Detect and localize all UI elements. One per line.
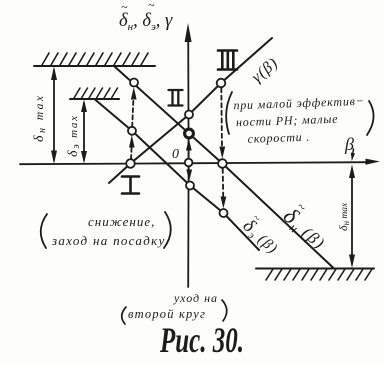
svg-text:заход на посадку: заход на посадку [51,233,166,248]
roman numeral II [169,90,183,106]
svg-text:γ(β): γ(β) [249,54,282,86]
dashed arrow region III: from β axis down to δэ line [222,169,225,197]
label δэ(β) on line δэ [238,211,287,259]
dashed arrow region I: from β axis up to δэ line [130,147,133,159]
svg-text:ности РН; малые: ности РН; малые [236,112,339,130]
node: γ line crossing vertical axis [185,111,193,119]
svg-text:при малой эффектив−: при малой эффектив− [233,94,365,113]
node: δэ line crossing vertical axis [186,182,194,190]
dashed arrow region I: from δэ line up to δн line [132,99,133,127]
label δэ max (left dimension) [66,114,82,157]
svg-text:0: 0 [172,147,179,162]
dimension arrow δн max (right), from β axis down to lower limit line [351,169,353,264]
annotation parenthesis ) [222,300,227,321]
annotation parenthesis ( [226,92,232,134]
label δн(β) on line δн [277,196,338,256]
annotation parenthesis ( [41,214,47,248]
caption Рис. 30. [159,319,244,360]
node: δн line crossing vertical axis (bold) [185,129,194,138]
svg-text:δэ max: δэ max [66,114,82,157]
dimension arrow δн max (left), from δн max line down to β axis [53,70,55,160]
wire: line δэ(β) (aileron deflection vs sideslip) [95,100,259,251]
node: γ line crossing β axis (region I) [126,159,135,168]
annotation: снижение, заход на посадку [51,214,166,248]
horizontal axis arrowhead [366,159,381,165]
svg-text:снижение,: снижение, [88,214,155,229]
svg-text:Рис. 30.: Рис. 30. [159,319,244,360]
axis label δн, δэ, γ [119,0,173,33]
node: origin [185,159,193,167]
label δн max (right dimension) [336,202,351,231]
svg-text:скорости .: скорости . [247,130,310,146]
roman numeral III [218,51,237,70]
horizontal axis (β axis) [20,162,368,164]
annotation: при малой эффективности РН; малые скорости [233,94,366,147]
annotation parenthesis ) [164,212,171,248]
node: δн line crossing β axis (region III) [218,159,227,168]
annotation parenthesis ( [122,307,126,324]
svg-text:уход на: уход на [173,291,218,305]
svg-text:δн max: δн max [336,202,351,231]
node: δэ line (region I) [128,127,136,135]
vertical axis arrowhead [185,23,192,42]
node: δэ line at region III [220,209,228,217]
svg-text:δэ (β): δэ (β) [238,215,283,259]
label δн max (left dimension) [32,93,48,142]
vertical axis [187,30,189,287]
hatched boundary: δэ max limit line [70,98,119,100]
label γ(β) on line γ [249,54,282,86]
svg-text:δн max: δн max [32,93,48,142]
node: γ line at region III [217,79,226,88]
svg-text:~: ~ [121,0,128,14]
solid arrow on vertical axis pointing down to δэ line [188,168,190,171]
roman numeral I [122,177,139,194]
β pointer arrow [353,149,354,155]
svg-text:δн, δэ, γ: δн, δэ, γ [119,11,173,33]
node: δн line at δн max boundary (region I) [130,79,138,87]
dashed arrow region III: from γ line down to β axis [220,88,223,147]
wire: line γ(β) (bank angle vs sideslip) [109,38,272,183]
solid arrow on vertical axis pointing up to δн line [188,149,190,159]
dimension arrow δэ max (left), from δэ max line down to β axis [83,103,85,160]
hatched boundary bottom-right: -δн max limit line [256,268,374,270]
svg-text:~: ~ [148,0,155,12]
hatched boundary top-left: δн max limit line [34,65,155,67]
svg-text:β: β [344,134,354,154]
wire: line δн(β) (rudder deflection vs sideslip) [114,66,334,269]
annotation parenthesis ) [367,101,374,135]
svg-text:δн (β): δн (β) [277,203,332,256]
annotation: уход на второй круг [128,291,218,321]
